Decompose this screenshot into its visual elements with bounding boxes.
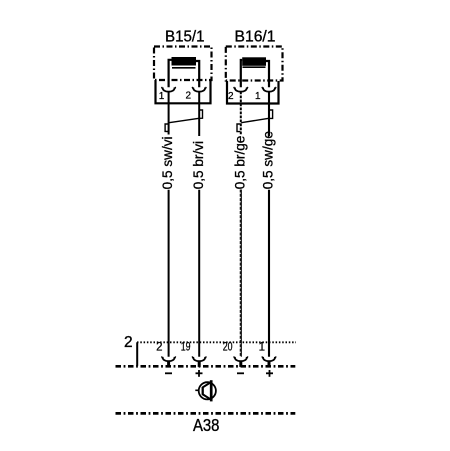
connector housing B15 bbox=[156, 80, 211, 103]
wire w1 lower segment bbox=[168, 190, 170, 357]
wire B16 pin2 leg bbox=[241, 60, 242, 87]
svg-text:20: 20 bbox=[223, 342, 233, 354]
connector housing B16 bbox=[227, 81, 279, 104]
pin 1 socket B16 bbox=[262, 87, 277, 91]
twisted-pair symbol B16 wires bbox=[237, 110, 273, 132]
svg-text:1: 1 bbox=[259, 342, 265, 354]
svg-text:0,5 br/ge: 0,5 br/ge bbox=[232, 136, 247, 190]
wire w4 upper segment bbox=[268, 92, 270, 137]
sensor B16/1 boundary box bbox=[226, 47, 283, 81]
loudspeaker icon bbox=[195, 380, 216, 401]
twisted-pair symbol B15 wires bbox=[165, 110, 202, 132]
svg-text:2: 2 bbox=[156, 342, 162, 354]
svg-text:0,5 sw/vi: 0,5 sw/vi bbox=[160, 136, 175, 189]
pin 20 socket (A38) bbox=[234, 357, 249, 367]
connector strip left drop bbox=[136, 342, 138, 366]
svg-text:1: 1 bbox=[255, 91, 261, 102]
pin 2 socket B15 bbox=[192, 87, 207, 91]
svg-text:2: 2 bbox=[228, 91, 234, 102]
svg-text:A38: A38 bbox=[193, 415, 220, 435]
module A38 lower boundary (dash-dot) bbox=[116, 412, 296, 415]
svg-text:0,5 sw/ge: 0,5 sw/ge bbox=[261, 131, 276, 189]
svg-text:B15/1: B15/1 bbox=[165, 28, 205, 45]
wire w1 upper segment bbox=[168, 92, 170, 135]
svg-text:B16/1: B16/1 bbox=[235, 28, 276, 45]
wire w2 upper segment bbox=[198, 92, 200, 137]
wire B16 pin1 leg bbox=[266, 61, 269, 87]
wire w3 lower segment (dashed) bbox=[240, 190, 241, 357]
sensor B16/1 element bbox=[242, 57, 266, 67]
sensor B15/1 boundary box bbox=[154, 47, 212, 81]
polarity plus (pin 1) bbox=[266, 370, 273, 377]
polarity minus (pin 2) bbox=[165, 372, 172, 374]
svg-text:2: 2 bbox=[124, 334, 133, 351]
pin 2 socket (A38) bbox=[161, 357, 176, 367]
svg-text:1: 1 bbox=[159, 91, 165, 102]
wire B15 pin1 leg bbox=[169, 60, 172, 87]
wire B15 pin2 leg bbox=[196, 61, 199, 87]
wire w2 lower segment bbox=[198, 190, 200, 357]
svg-text:0,5 br/vi: 0,5 br/vi bbox=[191, 141, 206, 189]
pin 2 socket B16 bbox=[234, 87, 249, 91]
pin 1 socket B15 bbox=[161, 87, 176, 91]
polarity plus (pin 19) bbox=[196, 370, 203, 377]
wire w3 upper segment (dashed) bbox=[240, 92, 242, 136]
pin 19 socket (A38) bbox=[192, 357, 207, 367]
sensor B15/1 element bbox=[172, 57, 197, 68]
wire w4 lower segment bbox=[268, 190, 270, 357]
svg-text:2: 2 bbox=[185, 91, 191, 102]
polarity minus (pin 20) bbox=[237, 372, 244, 374]
module A38 upper boundary (dash-dot) bbox=[116, 365, 296, 368]
connector strip dotted line bbox=[137, 341, 296, 343]
svg-text:19: 19 bbox=[181, 342, 191, 354]
pin 1 socket (A38) bbox=[262, 357, 277, 367]
